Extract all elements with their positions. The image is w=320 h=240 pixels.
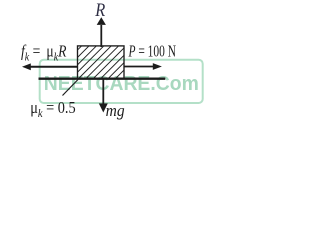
block M (hatched rectangle) (3, 0, 202, 125)
watermark box (40, 60, 203, 103)
svg-text:mg: mg (106, 101, 125, 120)
svg-text:P = 100 N: P = 100 N (128, 42, 176, 61)
leader line for mu_k (63, 80, 79, 96)
friction force arrow f_k (31, 66, 78, 68)
weight arrow mg (102, 79, 104, 104)
ground line (39, 77, 166, 79)
applied force arrow P (124, 66, 154, 68)
svg-text:NEETCARE.Com: NEETCARE.Com (44, 73, 199, 95)
svg-text:μk = 0.5: μk = 0.5 (30, 98, 75, 120)
svg-text:R: R (94, 0, 105, 21)
svg-text:fk = μkR: fk = μkR (21, 42, 67, 64)
normal force arrow R (100, 25, 102, 47)
